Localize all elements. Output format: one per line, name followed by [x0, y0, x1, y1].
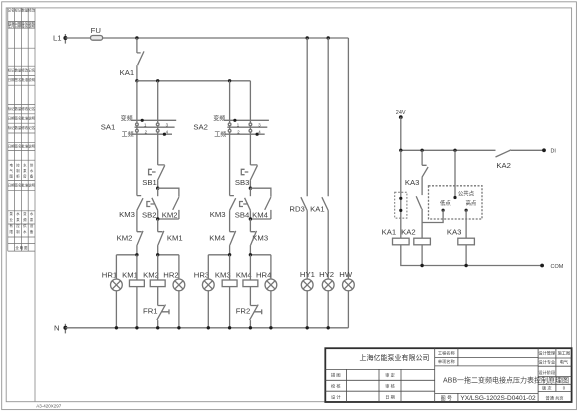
svg-text:普通 共页: 普通 共页	[546, 394, 564, 401]
wire N bus	[65, 327, 348, 329]
junction rail SA2 left	[228, 79, 231, 82]
svg-text:说明: 说明	[28, 77, 35, 82]
lamp HW	[339, 270, 354, 328]
svg-text:SB4: SB4	[235, 211, 250, 220]
svg-text:HY1: HY1	[300, 270, 315, 279]
svg-text:FU: FU	[91, 26, 101, 35]
svg-text:KM2: KM2	[117, 234, 133, 243]
svg-text:KM3: KM3	[210, 210, 226, 219]
svg-text:记名: 记名	[8, 7, 15, 12]
svg-text:SB1: SB1	[142, 178, 157, 187]
svg-text:供: 供	[30, 163, 34, 168]
svg-text:KM3: KM3	[215, 270, 231, 279]
wire HW column	[347, 38, 349, 279]
junction bus KA1 column	[327, 36, 330, 39]
contact KM1 (pump1 lower-right)	[158, 219, 183, 255]
svg-text:年月: 年月	[8, 24, 15, 29]
svg-text:制: 制	[16, 168, 20, 173]
svg-text:KM1: KM1	[167, 234, 183, 243]
svg-text:水: 水	[30, 211, 34, 216]
svg-text:说明: 说明	[28, 182, 35, 187]
pushbutton SB1 (NC)	[142, 165, 165, 188]
wire lamp rail pump2	[208, 254, 229, 256]
svg-text:KM2: KM2	[162, 211, 178, 220]
svg-text:泵: 泵	[30, 217, 34, 222]
svg-text:KM1: KM1	[122, 270, 138, 279]
svg-text:SA1: SA1	[101, 123, 116, 132]
svg-text:HR2: HR2	[163, 270, 178, 279]
svg-text:日 期: 日 期	[385, 394, 395, 400]
contact (second, KA2 branch)	[416, 196, 422, 238]
svg-text:泵: 泵	[23, 168, 27, 173]
svg-text:泵: 泵	[16, 217, 20, 222]
svg-text:设计管理: 设计管理	[538, 350, 556, 357]
wire SA1 left column	[136, 81, 138, 196]
svg-text:说明: 说明	[28, 24, 35, 29]
svg-text:上海亿能泵业有限公司: 上海亿能泵业有限公司	[360, 353, 430, 362]
wire low point to KA2 branch	[422, 210, 443, 222]
svg-text:A3-420X297: A3-420X297	[36, 404, 62, 409]
wire rail after KA1	[137, 80, 251, 82]
svg-text:水: 水	[30, 168, 34, 173]
svg-text:限: 限	[10, 229, 14, 234]
svg-text:审 定: 审 定	[385, 372, 395, 379]
svg-text:泵: 泵	[10, 211, 14, 216]
svg-text:电气: 电气	[560, 359, 569, 365]
coil KM2	[143, 255, 165, 306]
node COM	[540, 264, 544, 268]
svg-text:SB2: SB2	[142, 211, 157, 220]
svg-text:KM2: KM2	[143, 270, 159, 279]
svg-text:工程名称: 工程名称	[438, 350, 455, 357]
svg-text:电: 电	[10, 163, 14, 168]
svg-text:KA1: KA1	[382, 228, 397, 237]
svg-text:DI: DI	[551, 149, 556, 155]
svg-text:SA2: SA2	[193, 123, 208, 132]
pushbutton SB4 (NO)	[235, 188, 251, 219]
svg-text:水: 水	[23, 163, 27, 168]
coil KA2	[401, 228, 430, 268]
wire SA2 left column	[229, 81, 231, 196]
svg-text:修改: 修改	[28, 7, 35, 12]
svg-text:说明: 说明	[28, 143, 35, 148]
junction rail SA1 right	[156, 79, 159, 82]
svg-text:N: N	[54, 323, 60, 332]
lamp HY2	[319, 270, 334, 328]
svg-text:签名: 签名	[15, 77, 22, 82]
svg-text:气: 气	[10, 168, 14, 173]
svg-text:HW: HW	[339, 270, 353, 279]
svg-text:版 次: 版 次	[542, 385, 552, 392]
node common point	[454, 150, 456, 197]
svg-text:变频: 变频	[213, 115, 225, 123]
svg-text:签名: 签名	[15, 143, 22, 148]
lamp HY1	[300, 270, 315, 328]
lamp HR3	[194, 255, 214, 328]
svg-text:ABB一拖二变频电接点压力表控制原理图: ABB一拖二变频电接点压力表控制原理图	[443, 376, 569, 385]
wire L1 bus right	[103, 37, 349, 39]
wire SA2 right column	[249, 81, 251, 165]
svg-text:图 号: 图 号	[441, 396, 452, 402]
svg-text:审 核: 审 核	[385, 383, 395, 390]
svg-text:描 图: 描 图	[331, 372, 341, 379]
svg-text:FR1: FR1	[143, 307, 158, 316]
svg-text:高点: 高点	[466, 199, 477, 207]
junction bus RD3 column	[306, 36, 309, 39]
svg-text:KM4: KM4	[252, 211, 269, 220]
svg-text:全 略 图: 全 略 图	[15, 245, 28, 250]
title block	[325, 348, 571, 402]
contact KA3 (NC)	[405, 150, 428, 195]
svg-text:施工图: 施工图	[558, 350, 571, 357]
svg-text:KM3: KM3	[119, 210, 135, 219]
contact KM3 (pump2 lower-right)	[250, 219, 268, 255]
contact KM3 (pump2 upper)	[210, 196, 236, 219]
svg-text:业: 业	[10, 217, 14, 222]
wire KA1 coil branch	[400, 150, 402, 238]
contact KM2 aux (parallel with SB2)	[158, 188, 179, 219]
pushbutton SB2 (NO)	[142, 188, 158, 219]
node below SB3	[249, 187, 252, 190]
svg-text:设 计: 设 计	[331, 393, 341, 400]
junctions on N bus	[115, 326, 118, 329]
wire lamp rail pump1	[116, 254, 136, 256]
contact KM2 (pump1 lower-left)	[117, 210, 143, 255]
svg-text:记名: 记名	[28, 67, 35, 72]
lamp HR4	[256, 255, 277, 328]
wire L1 bus	[65, 37, 90, 39]
coil KM4	[236, 255, 258, 306]
wire SA1 right column	[157, 81, 159, 165]
svg-text:SB3: SB3	[235, 178, 250, 187]
svg-text:房: 房	[23, 174, 27, 179]
node low point	[442, 209, 445, 212]
contact KA2 (horizontal)	[496, 150, 545, 170]
svg-text:KA2: KA2	[496, 161, 511, 170]
svg-text:FR2: FR2	[236, 307, 251, 316]
junction on bus at KA1 branch	[135, 36, 138, 39]
svg-text:YX/LSG-1202S-D0401-02: YX/LSG-1202S-D0401-02	[460, 395, 536, 402]
wire control rail	[401, 149, 496, 151]
lamp HR1	[102, 255, 122, 328]
svg-text:变: 变	[23, 211, 27, 216]
svg-text:签名: 签名	[15, 116, 22, 121]
svg-text:控: 控	[16, 163, 20, 168]
thermal relay FR1	[143, 305, 169, 328]
svg-text:低点: 低点	[440, 199, 451, 207]
svg-text:HR1: HR1	[102, 270, 117, 279]
node high point	[465, 209, 468, 212]
wire 24V drop	[400, 117, 402, 150]
pushbutton SB3 (NC)	[235, 165, 258, 188]
svg-text:签名: 签名	[21, 24, 28, 29]
svg-text:设计阶段: 设计阶段	[538, 369, 556, 376]
svg-text:记名: 记名	[28, 125, 35, 130]
coil KM1	[122, 255, 144, 328]
contact KA1 (lamp column)	[310, 38, 328, 279]
svg-text:HR4: HR4	[256, 270, 272, 279]
svg-text:制: 制	[16, 229, 20, 234]
contact KM3 (pump1 upper)	[119, 196, 143, 219]
wire high point to KA3 coil	[465, 210, 467, 238]
svg-text:设计专业: 设计专业	[538, 359, 555, 366]
svg-text:0: 0	[563, 386, 566, 391]
svg-text:柜: 柜	[16, 174, 20, 179]
svg-text:COM: COM	[551, 264, 564, 270]
wire KA1 drop	[136, 38, 138, 53]
junction KA1 rail left	[135, 79, 138, 82]
node DI	[542, 148, 546, 152]
svg-text:KM4: KM4	[209, 234, 226, 243]
svg-text:HY2: HY2	[319, 270, 334, 279]
svg-text:校 核: 校 核	[331, 383, 341, 390]
switch SA1	[101, 115, 176, 139]
svg-text:图: 图	[10, 175, 14, 179]
contact KM4 (pump2 lower-left)	[209, 210, 235, 255]
svg-text:说明: 说明	[28, 116, 35, 121]
svg-text:KA2: KA2	[401, 228, 416, 237]
node below SB2	[156, 217, 159, 220]
revision table grid (left margin strip)	[8, 8, 35, 251]
coil KA1	[382, 228, 542, 266]
svg-text:备: 备	[30, 229, 34, 234]
contact KM4 aux (parallel with SB4)	[250, 188, 271, 219]
pressure switch contacts (dashed box)	[395, 192, 407, 218]
svg-text:变频: 变频	[121, 115, 133, 123]
svg-text:有: 有	[10, 223, 14, 228]
svg-text:RD3: RD3	[289, 205, 304, 214]
svg-text:KA1: KA1	[120, 68, 135, 77]
lamp HR2	[163, 255, 184, 328]
svg-text:KA3: KA3	[447, 228, 462, 237]
svg-text:KA1: KA1	[310, 205, 325, 214]
svg-text:水: 水	[23, 229, 27, 234]
svg-text:记名: 记名	[28, 106, 35, 111]
svg-text:公共点: 公共点	[458, 189, 475, 197]
switch SA2	[193, 115, 268, 139]
svg-text:L1: L1	[53, 34, 62, 43]
svg-text:24V: 24V	[396, 110, 406, 116]
svg-text:单项名称: 单项名称	[438, 358, 455, 365]
thermal relay FR2	[236, 305, 262, 328]
svg-text:频: 频	[23, 217, 27, 222]
svg-text:HR3: HR3	[194, 270, 209, 279]
node below SB1	[156, 187, 159, 190]
coil KA3	[447, 228, 474, 268]
svg-text:水: 水	[16, 211, 20, 216]
contact RD3	[289, 38, 307, 279]
node below SB4	[249, 217, 252, 220]
pressure gauge box (dashed)	[429, 186, 483, 219]
svg-text:签名: 签名	[15, 182, 22, 187]
coil KM3	[215, 255, 237, 328]
svg-text:备: 备	[30, 174, 34, 179]
svg-text:KA3: KA3	[405, 178, 420, 187]
